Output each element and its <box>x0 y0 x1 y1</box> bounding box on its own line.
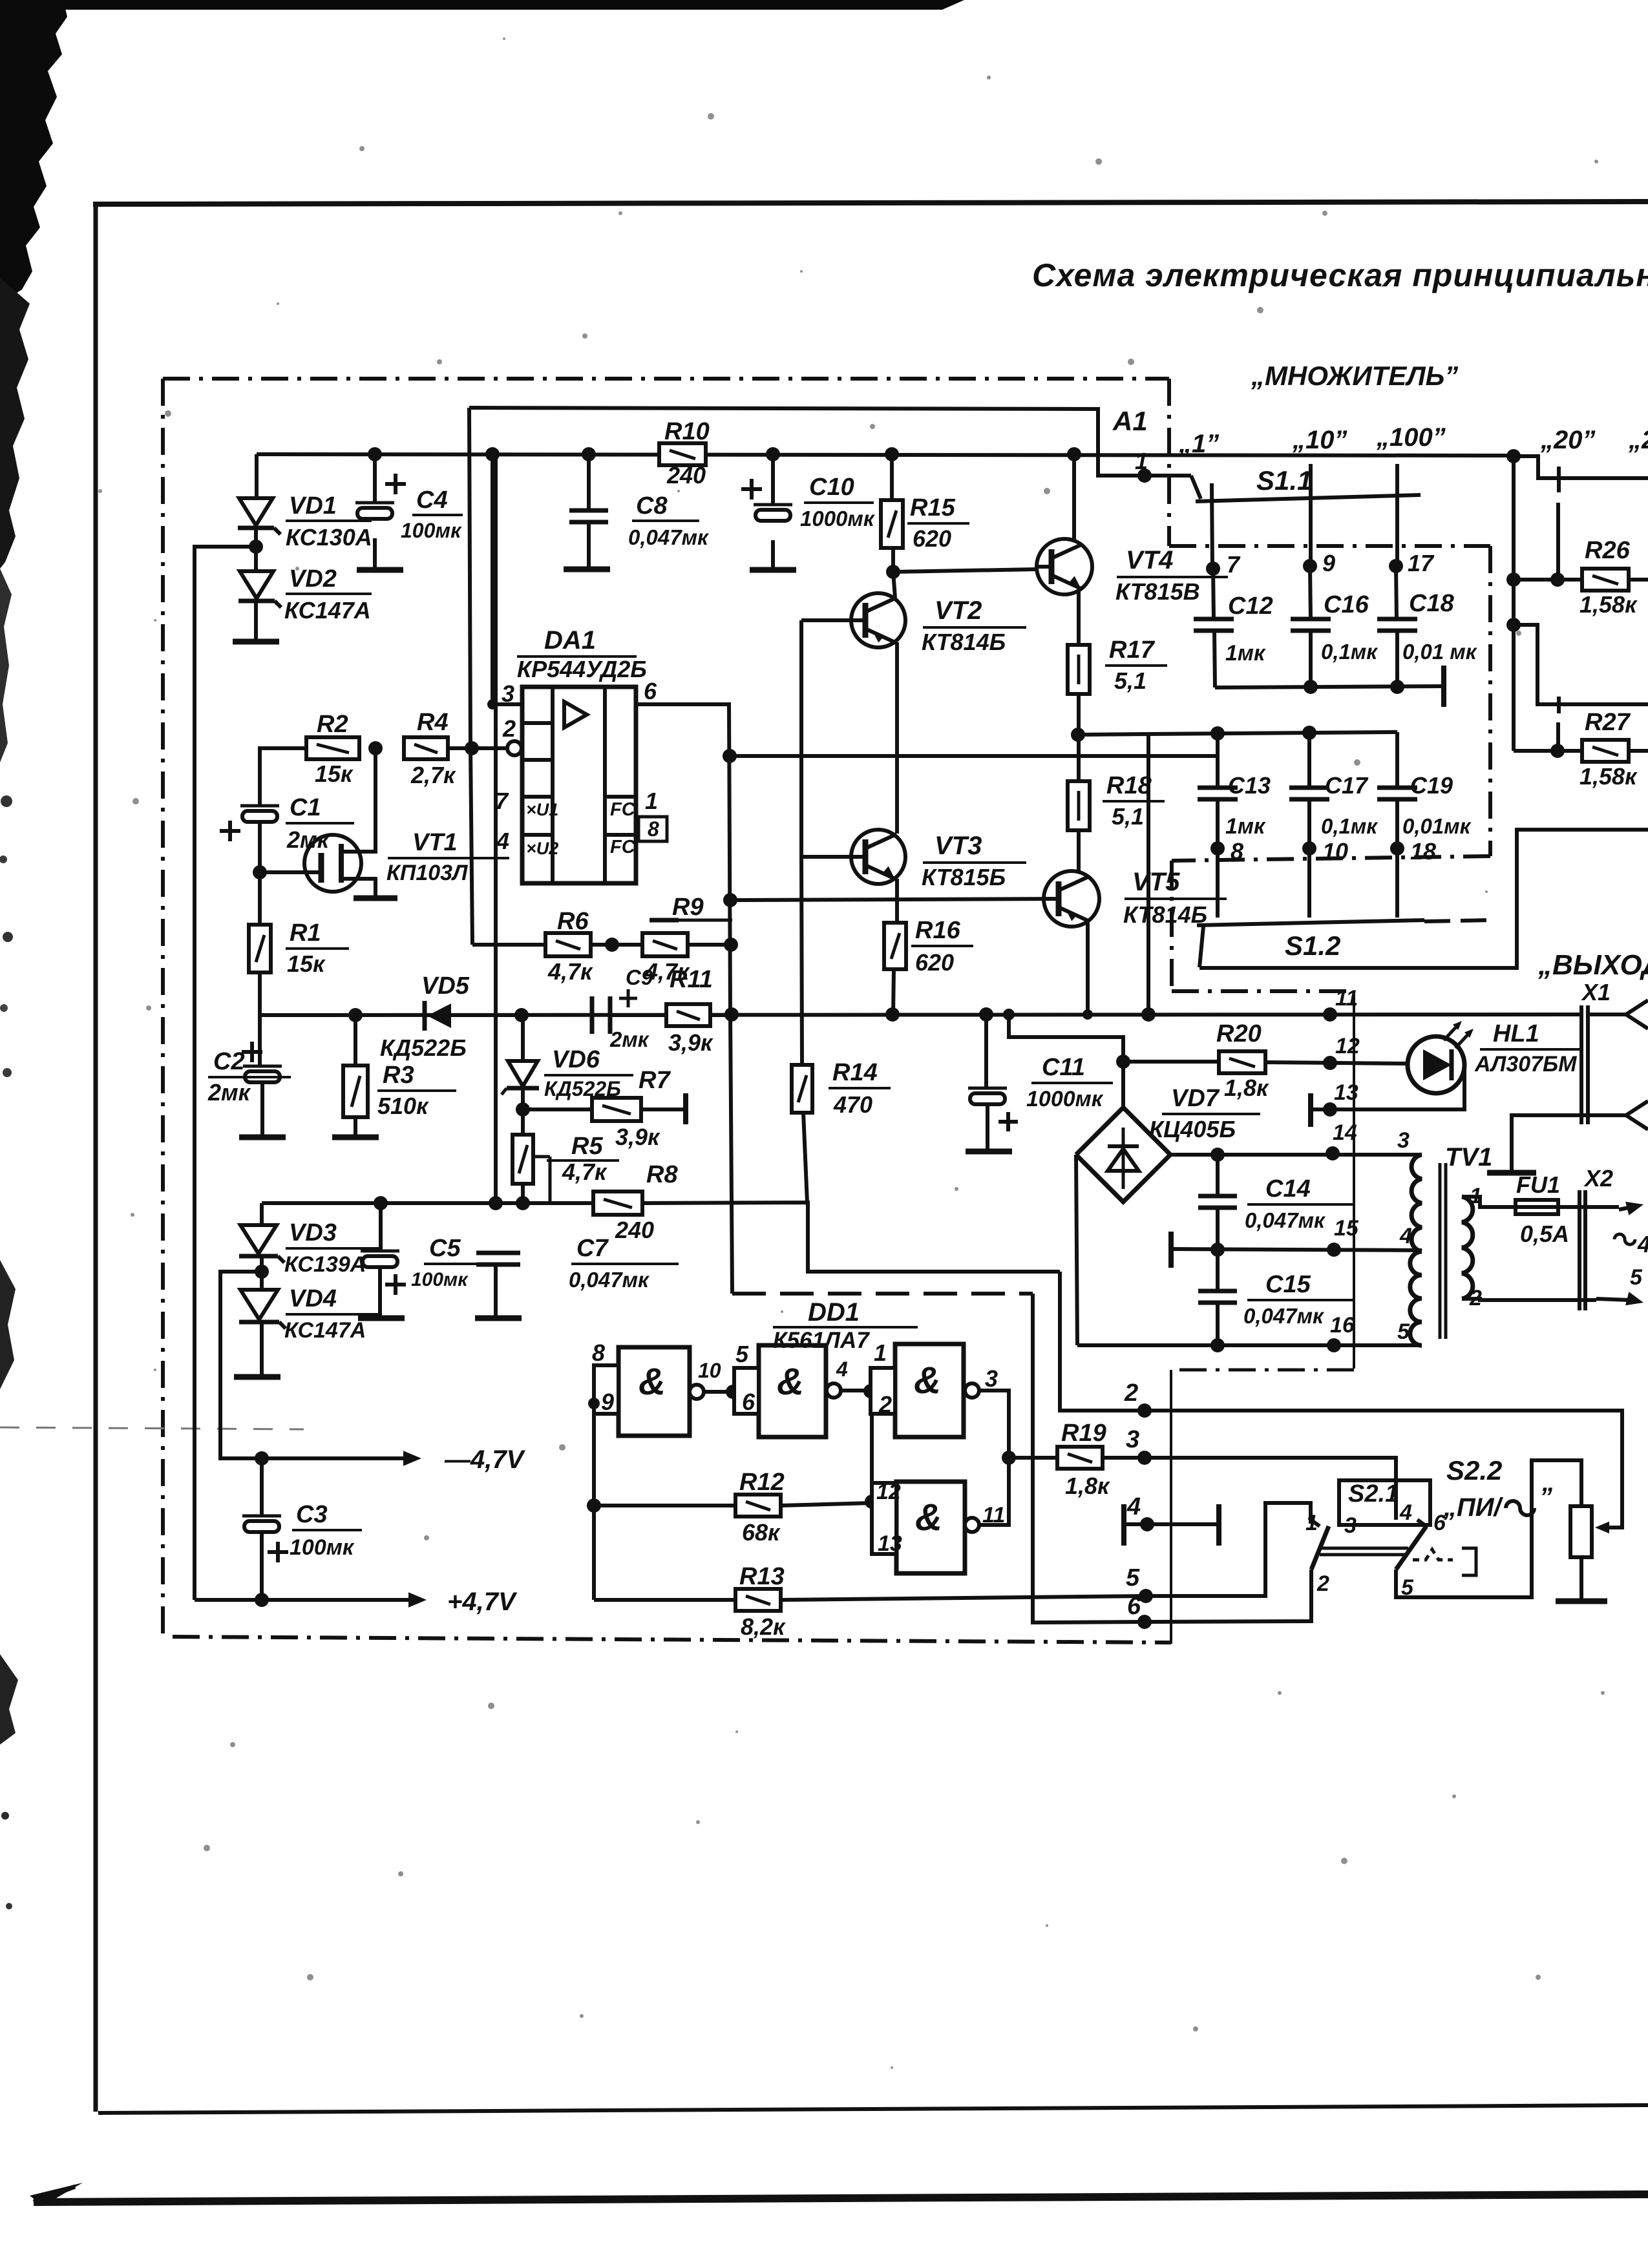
node pin8 <box>1210 841 1225 856</box>
svg-text:5: 5 <box>1630 1265 1643 1290</box>
node output-VD6 <box>514 1008 529 1022</box>
svg-text:FC: FC <box>610 837 636 857</box>
label R4 <box>410 709 456 788</box>
capacitor C2 <box>242 1015 282 1136</box>
node terminal 3 <box>1137 1451 1152 1465</box>
label pin 13 <box>1334 1080 1358 1105</box>
node terminal 2 <box>1137 1403 1152 1418</box>
transistor VT1 (FET) <box>304 748 375 897</box>
svg-text:C11: C11 <box>1042 1054 1085 1081</box>
node output-R16 <box>885 1007 900 1022</box>
svg-text:R2: R2 <box>317 711 348 738</box>
label C17 <box>1321 772 1379 838</box>
svg-text:1: 1 <box>1305 1511 1318 1535</box>
svg-text:2: 2 <box>1124 1380 1138 1407</box>
svg-text:АЛ307БМ: АЛ307БМ <box>1474 1052 1577 1076</box>
scan artifact: left dark band <box>0 0 83 2206</box>
wire VT5 base <box>730 899 1059 900</box>
svg-text:+4,7V: +4,7V <box>447 1588 518 1616</box>
label VD4 <box>284 1285 380 1343</box>
title text <box>1032 257 1648 293</box>
node R8row-C7col <box>489 1196 503 1210</box>
switch S2.1 arm <box>1311 1526 1329 1570</box>
wire R20 to LED <box>1265 1062 1408 1064</box>
node pin16 <box>1327 1338 1341 1352</box>
node pin13 <box>1323 1102 1337 1117</box>
capacitor C14 <box>1198 1155 1237 1249</box>
svg-text:R11: R11 <box>670 966 713 993</box>
capacitor C17 <box>1289 733 1329 918</box>
wire contact 20 stub <box>1558 467 1559 580</box>
svg-text:C12: C12 <box>1228 593 1273 620</box>
svg-text:КС147А: КС147А <box>284 1318 366 1343</box>
svg-text:&: & <box>915 1496 942 1538</box>
svg-text:X2: X2 <box>1583 1165 1613 1192</box>
svg-text:VD1: VD1 <box>289 492 337 520</box>
capacitor C18 <box>1377 566 1417 688</box>
LED HL1 <box>1408 1021 1474 1093</box>
label R9 <box>644 894 704 985</box>
wire contact 100 stub <box>1395 464 1399 567</box>
label terminal 6 <box>1127 1593 1141 1620</box>
svg-text:10: 10 <box>1322 838 1348 865</box>
svg-text:C4: C4 <box>416 487 448 514</box>
svg-text:„МНОЖИТЕЛЬ”: „МНОЖИТЕЛЬ” <box>1251 361 1458 391</box>
label S2.2 <box>1446 1455 1502 1486</box>
label R20 <box>1216 1020 1269 1101</box>
svg-text:„100”: „100” <box>1376 423 1446 452</box>
label mains tilde <box>1614 1231 1648 1290</box>
svg-text:8: 8 <box>1231 838 1243 865</box>
svg-text:4: 4 <box>1126 1493 1141 1520</box>
capacitor C11 <box>968 1014 1018 1150</box>
svg-text:VD6: VD6 <box>552 1046 600 1073</box>
label terminal 2 <box>1124 1380 1138 1407</box>
node C3 top <box>255 1451 269 1465</box>
node rail-VT4 <box>1067 447 1081 461</box>
svg-text:VT3: VT3 <box>935 832 982 860</box>
wire contact 1 stub <box>1212 483 1212 568</box>
label pin 11 <box>1335 986 1358 1011</box>
label R8 <box>615 1161 678 1243</box>
terminal 4 chassis stubs <box>1124 1504 1219 1546</box>
svg-text:12: 12 <box>876 1480 901 1504</box>
node pin10 <box>1302 841 1316 856</box>
label R16 <box>911 917 973 976</box>
svg-text:8: 8 <box>592 1339 605 1366</box>
svg-text:5: 5 <box>735 1341 749 1367</box>
resistor R9 (trimmer) <box>642 920 732 956</box>
node R2-R4 <box>368 741 383 755</box>
capacitor C12 <box>1194 569 1234 688</box>
svg-text:S2.2: S2.2 <box>1446 1455 1502 1486</box>
svg-text:&: & <box>639 1361 666 1403</box>
ground below R3 <box>332 1135 379 1140</box>
wire right column <box>1512 456 1516 751</box>
node pin2 junction <box>465 741 479 755</box>
node output pin11 <box>1323 1007 1337 1022</box>
wire R12 row <box>594 1504 735 1507</box>
wire R8 net to terminal2 <box>1060 1272 1145 1411</box>
svg-text:DD1: DD1 <box>808 1298 860 1327</box>
svg-text:КТ815В: КТ815В <box>1115 578 1200 605</box>
resistor R13 <box>735 1589 781 1611</box>
svg-text:6: 6 <box>644 678 657 704</box>
svg-text:470: 470 <box>833 1091 872 1118</box>
wire R4 to pin2 bubble <box>448 746 509 750</box>
label R14 <box>829 1059 891 1118</box>
svg-text:КЦ405Б: КЦ405Б <box>1149 1116 1236 1142</box>
wire node to output rail <box>1078 734 1148 1014</box>
resistor R11 <box>666 1004 710 1026</box>
svg-text:12: 12 <box>1335 1034 1360 1058</box>
svg-text:R6: R6 <box>557 908 589 935</box>
label position 2 partial <box>1628 426 1648 454</box>
wire R8 row <box>262 1201 593 1205</box>
svg-text:C2: C2 <box>213 1048 245 1075</box>
wire secondary pin2 to X2 <box>1462 1299 1596 1300</box>
ground below C11 <box>966 1149 1012 1155</box>
svg-text:240: 240 <box>615 1217 654 1243</box>
label TV1 pin 3 <box>1397 1128 1410 1153</box>
node pin12 junction <box>865 1495 879 1509</box>
label pin 18 <box>1410 838 1436 865</box>
svg-text:1,8к: 1,8к <box>1065 1473 1110 1499</box>
svg-text:0,01 мк: 0,01 мк <box>1402 640 1478 664</box>
label DD1 <box>773 1298 918 1353</box>
svg-text:КР544УД2Б: КР544УД2Б <box>517 656 647 682</box>
label DA1 <box>517 626 647 682</box>
label pin 14 <box>1333 1120 1357 1145</box>
wire R8 to R14 <box>642 1202 1060 1272</box>
diode VD5 <box>425 1001 522 1031</box>
node VD1-VD2 <box>249 528 263 571</box>
resistor R5 (with tap) <box>512 1109 550 1203</box>
svg-text:C19: C19 <box>1410 772 1453 799</box>
label VT5 <box>1123 868 1227 928</box>
svg-text:0,047мк: 0,047мк <box>569 1268 650 1292</box>
resistor R1 <box>249 925 271 972</box>
resistor R14 <box>792 857 812 1202</box>
label C19 <box>1402 772 1472 838</box>
svg-text:620: 620 <box>915 949 954 976</box>
label VT1 <box>386 829 509 885</box>
svg-text:1: 1 <box>874 1339 887 1366</box>
label X2 <box>1583 1165 1613 1192</box>
svg-text:”: ” <box>1539 1483 1552 1511</box>
svg-text:R17: R17 <box>1109 636 1156 664</box>
label DD1.2 pin 4 <box>836 1358 848 1381</box>
node pin18 <box>1390 841 1404 856</box>
logic gate DD1.1 <box>594 1347 704 1436</box>
capacitor C4 <box>355 454 406 569</box>
node cap C16 top pin9 <box>1303 559 1317 573</box>
ground potentiometer <box>1556 1599 1607 1604</box>
svg-text:1,58к: 1,58к <box>1579 591 1638 618</box>
wire pin16 row <box>1077 1343 1422 1347</box>
label VD7 <box>1149 1085 1260 1142</box>
label VD6 <box>544 1046 633 1100</box>
resistor R18 <box>1068 781 1090 830</box>
wire R13 row <box>594 1598 735 1602</box>
wire feedback column to pin2 <box>469 408 472 945</box>
svg-text:„20”: „20” <box>1540 426 1596 454</box>
label C11 <box>1026 1054 1113 1111</box>
wire contact 10 stub <box>1309 464 1313 567</box>
svg-text:9: 9 <box>601 1389 614 1415</box>
svg-text:620: 620 <box>913 525 951 552</box>
label C18 <box>1402 590 1478 664</box>
wire R16 to output rail <box>893 969 894 1014</box>
svg-text:КТ814Б: КТ814Б <box>922 629 1006 655</box>
svg-text:КТ815Б: КТ815Б <box>922 864 1006 890</box>
wire DA1 pin6 output <box>636 704 732 1294</box>
label VD2 <box>284 565 372 624</box>
svg-text:7: 7 <box>495 788 509 814</box>
node C3 bottom <box>255 1593 269 1607</box>
module pin column line <box>1171 991 1354 1644</box>
svg-text:VT1: VT1 <box>412 829 458 856</box>
capacitor C1 <box>220 806 279 872</box>
label R18 <box>1103 772 1165 830</box>
chassis tick pin13 <box>1308 1093 1313 1127</box>
wire C9 to R11 <box>610 1013 666 1017</box>
transistor VT4 <box>1037 454 1092 645</box>
svg-text:C7: C7 <box>576 1235 609 1262</box>
wire minus 4.7V <box>220 1272 407 1458</box>
svg-text:C14: C14 <box>1265 1175 1311 1202</box>
label X1 <box>1581 979 1611 1005</box>
label DD1.4 pin 11 <box>982 1503 1005 1528</box>
switch S2.1 box <box>1339 1480 1430 1525</box>
label VT3 <box>922 832 1026 890</box>
capacitor C15 <box>1198 1250 1237 1345</box>
svg-text:100мк: 100мк <box>290 1535 355 1560</box>
arrow to potentiometer <box>1595 1522 1609 1533</box>
label S2.1 pin 2 <box>1316 1571 1329 1596</box>
wire output rail to bridge <box>1009 1014 1123 1108</box>
connector X1 <box>1581 1000 1648 1129</box>
node R8row-C5 <box>374 1196 388 1210</box>
wire VD2 to ground <box>254 601 258 642</box>
node gate3 in <box>863 1384 878 1398</box>
wire VD4 to ground <box>260 1322 264 1376</box>
label minus 4.7V <box>444 1445 526 1474</box>
svg-text:1мк: 1мк <box>1225 814 1266 839</box>
svg-text:R13: R13 <box>739 1563 785 1590</box>
label R5 <box>547 1133 619 1185</box>
label C3 <box>290 1501 362 1560</box>
wire S1.2 output <box>1199 830 1648 968</box>
label HL1 <box>1474 1020 1581 1076</box>
transformer TV1 secondary winding <box>1462 1197 1473 1299</box>
label C4 <box>401 487 463 542</box>
node row2 rail C17 <box>1302 726 1316 740</box>
svg-text:A1: A1 <box>1112 406 1148 436</box>
wire left branch from VD1-VD2 node <box>195 547 256 1600</box>
wire S2.2 pin5 out <box>1396 1460 1581 1597</box>
ground below VT1 <box>354 896 397 901</box>
label C1 <box>286 794 354 853</box>
label R17 <box>1105 636 1167 694</box>
label R3 <box>377 1062 456 1119</box>
wire gate to VT1 <box>260 870 321 874</box>
DA1 pin 8 box <box>639 817 667 841</box>
wire VT2 base <box>801 618 865 622</box>
svg-text:&: & <box>777 1361 804 1403</box>
wire pin3 feed <box>492 454 521 704</box>
svg-text:100мк: 100мк <box>411 1269 469 1290</box>
node R6-R9 <box>591 938 642 952</box>
label TV1 pin 1 <box>1470 1184 1482 1208</box>
svg-text:R20: R20 <box>1216 1020 1262 1047</box>
node pin1 on border <box>1137 468 1152 483</box>
transistor VT2 <box>851 572 905 834</box>
wire R2 left to C1 <box>260 748 306 804</box>
transistor VT3 <box>851 830 905 923</box>
node R9-column <box>724 938 738 952</box>
wire bridge left loop <box>1076 1155 1077 1345</box>
svg-text:КС139А: КС139А <box>284 1252 366 1277</box>
svg-text:VD5: VD5 <box>421 972 470 1000</box>
label pin 16 <box>1330 1313 1355 1338</box>
svg-text:10: 10 <box>698 1359 721 1382</box>
label DA1 pin 3 <box>502 680 514 707</box>
wire potentiometer to ground <box>1579 1557 1583 1600</box>
node C1-VT1 gate <box>253 865 267 879</box>
capacitor bank dash-dot box <box>1169 546 1490 991</box>
svg-text:2,7к: 2,7к <box>410 762 456 788</box>
node terminal 5 <box>1139 1589 1153 1603</box>
svg-text:„10”: „10” <box>1292 426 1347 454</box>
label S2.1 <box>1348 1480 1399 1507</box>
wire caps row1 bottom rail <box>1215 686 1442 688</box>
ground below VD2 <box>233 639 279 645</box>
wire cap row2 top rail <box>1148 732 1397 734</box>
svg-text:„1”: „1” <box>1178 430 1219 458</box>
node R17-R18 <box>1071 728 1085 742</box>
switch link bar <box>1320 1548 1408 1555</box>
label DA1 pin 1 <box>645 788 658 814</box>
svg-text:X1: X1 <box>1581 979 1611 1005</box>
svg-text:0,1мк: 0,1мк <box>1321 640 1379 664</box>
svg-text:5,1: 5,1 <box>1114 667 1146 694</box>
switch S2.2 arm <box>1396 1526 1426 1570</box>
wire LED return to pin13 <box>1312 1065 1464 1109</box>
node output-R3 <box>348 1008 363 1022</box>
svg-text:3: 3 <box>1126 1426 1139 1453</box>
svg-text:1000мк: 1000мк <box>1026 1087 1104 1111</box>
svg-text:6: 6 <box>742 1389 755 1415</box>
resistor R15 <box>881 454 903 572</box>
logic gate DD1.3 <box>871 1344 979 1437</box>
svg-text:13: 13 <box>878 1531 902 1556</box>
label DD1.1 pin 9 <box>601 1389 614 1415</box>
node pin12 <box>1323 1056 1337 1070</box>
wire pin2 column to R6 <box>472 943 545 947</box>
label FU1 <box>1516 1171 1560 1198</box>
capacitor C19 <box>1377 732 1417 918</box>
node R20 branch <box>1116 1055 1130 1069</box>
capacitor C7 <box>476 1253 520 1317</box>
wire R11 right <box>710 1013 730 1017</box>
svg-text:5: 5 <box>1401 1575 1414 1600</box>
svg-text:HL1: HL1 <box>1493 1020 1539 1047</box>
label A1 <box>1112 406 1148 436</box>
arrow plus 4.7V <box>408 1592 427 1608</box>
node R15-VT4base <box>886 565 900 579</box>
label DD1.4 pin 13 <box>878 1531 902 1556</box>
svg-text:C17: C17 <box>1325 772 1369 799</box>
node gate pin9 column <box>588 1398 600 1409</box>
svg-text:С18: С18 <box>1409 590 1455 617</box>
node R26 row <box>1506 572 1521 587</box>
wire R9 to column <box>688 943 730 947</box>
node R27-stub <box>1550 744 1565 758</box>
resistor R7 <box>523 1098 684 1121</box>
label DD1.3 pin 2 <box>878 1391 892 1418</box>
resistor R2 <box>306 737 359 759</box>
chassis tick C14-C15 mid <box>1168 1232 1174 1268</box>
svg-text:&: & <box>914 1360 941 1402</box>
svg-text:R7: R7 <box>639 1067 671 1094</box>
wire base column <box>799 620 803 857</box>
svg-text:3: 3 <box>985 1365 998 1392</box>
svg-text:0,01мк: 0,01мк <box>1402 814 1472 838</box>
resistor R3 <box>343 1015 368 1136</box>
label VD3 <box>284 1219 380 1277</box>
label DD1.3 pin 3 <box>985 1365 998 1392</box>
A1 module dash-dot border <box>163 379 1171 1643</box>
wire S2.1 pin2 to terminal 6 <box>1145 1570 1311 1622</box>
potentiometer <box>1570 1506 1592 1557</box>
label TV1 <box>1445 1143 1492 1171</box>
switch S1.2 bar <box>1197 920 1490 925</box>
svg-text:1: 1 <box>645 788 658 814</box>
svg-text:1000мк: 1000мк <box>800 507 876 530</box>
svg-text:15к: 15к <box>315 761 354 787</box>
svg-text:1,58к: 1,58к <box>1579 763 1638 790</box>
node R11-column <box>724 1007 739 1022</box>
wire second bus <box>1514 625 1648 704</box>
svg-text:C10: C10 <box>809 474 854 501</box>
svg-text:5: 5 <box>1126 1564 1140 1591</box>
label DA1 pin 4 with nc mark <box>496 828 558 858</box>
svg-text:C15: C15 <box>1265 1271 1311 1298</box>
svg-text:FC: FC <box>610 799 636 820</box>
node VD3-VD4 <box>255 1256 269 1290</box>
node R26-stub <box>1550 572 1565 587</box>
label R2 <box>315 711 354 787</box>
svg-text:C3: C3 <box>296 1501 328 1528</box>
svg-text:R1: R1 <box>290 919 321 947</box>
label terminal 5 <box>1126 1564 1140 1591</box>
node pin14 <box>1326 1146 1340 1160</box>
wire VT1 to R1 <box>258 872 262 925</box>
node output-1777 <box>1141 1007 1156 1022</box>
connector X2 <box>1579 1190 1643 1310</box>
ground below C10 <box>750 567 796 573</box>
node terminal 6 <box>1137 1615 1152 1629</box>
svg-text:4,7к: 4,7к <box>562 1159 607 1185</box>
svg-text:16: 16 <box>1330 1313 1355 1338</box>
svg-text:6: 6 <box>1127 1593 1141 1620</box>
zener VD2 <box>238 571 281 607</box>
transformer TV1 core <box>1440 1163 1446 1339</box>
svg-text:15к: 15к <box>287 950 326 977</box>
wire R19 to terminal 3 <box>1103 1456 1145 1460</box>
svg-text:„ВЫХОД”: „ВЫХОД” <box>1537 949 1648 981</box>
